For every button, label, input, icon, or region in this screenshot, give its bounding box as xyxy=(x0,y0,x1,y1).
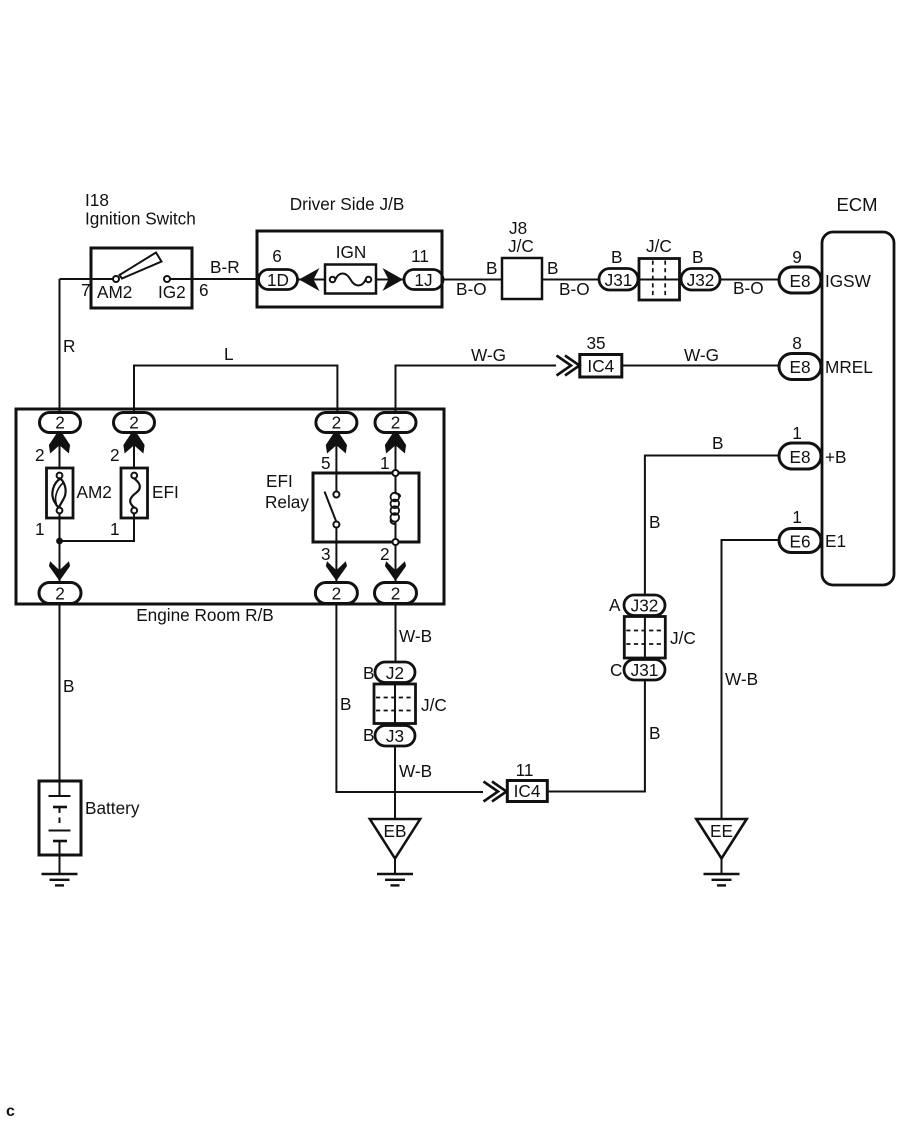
arrow down battery feed xyxy=(49,561,70,581)
wire through J/C xyxy=(394,683,396,726)
J/C internal dashes xyxy=(653,261,665,299)
junction connector J/C box (J31-J32 right) xyxy=(624,617,665,659)
svg-text:B-O: B-O xyxy=(559,279,590,299)
svg-text:IG2: IG2 xyxy=(158,282,186,302)
svg-text:W-G: W-G xyxy=(684,345,719,365)
battery internal plates xyxy=(49,781,71,855)
svg-text:IGN: IGN xyxy=(336,242,367,262)
svg-text:2: 2 xyxy=(55,584,65,604)
ground (battery) xyxy=(42,874,78,885)
connector J3 oval xyxy=(375,726,415,747)
wire relay pin3 from contact to box bottom xyxy=(335,528,337,584)
svg-text:Relay: Relay xyxy=(265,492,309,512)
svg-text:B: B xyxy=(340,694,351,714)
arrow down relay pin3 xyxy=(326,561,347,581)
svg-text:B: B xyxy=(547,258,558,278)
wire EFI fuse down and left to junction xyxy=(60,514,135,542)
svg-text:c: c xyxy=(6,1103,15,1120)
svg-text:J/C: J/C xyxy=(508,236,534,256)
svg-text:2: 2 xyxy=(332,584,342,604)
arrow into 1D (left-pointing) xyxy=(299,268,320,291)
relay coil node top xyxy=(393,470,399,476)
svg-text:35: 35 xyxy=(586,333,605,353)
svg-text:B: B xyxy=(363,663,374,683)
svg-text:E8: E8 xyxy=(789,357,810,377)
wire EFI relay pin1 to W-G line xyxy=(396,366,557,413)
svg-text:5: 5 xyxy=(321,453,331,473)
svg-text:IC4: IC4 xyxy=(587,356,614,376)
wire AM2 fuse down to junction xyxy=(59,514,61,562)
wire relay pin3 down to IC4 11 xyxy=(336,604,483,793)
fuse IGN element xyxy=(330,277,336,283)
wire through J/C xyxy=(644,617,646,659)
connector 1D oval xyxy=(259,270,298,290)
svg-text:1J: 1J xyxy=(414,270,432,290)
svg-text:W-B: W-B xyxy=(399,761,432,781)
connector 2 oval (relay pin1 top) xyxy=(375,413,416,433)
connector J32 oval (right) xyxy=(624,595,665,616)
wire J32 up to E8 +B xyxy=(645,456,779,596)
ignition switch I18 box xyxy=(91,248,192,308)
ignition switch lever xyxy=(120,253,162,279)
svg-text:Driver Side J/B: Driver Side J/B xyxy=(290,194,405,214)
svg-text:MREL: MREL xyxy=(825,357,873,377)
svg-text:EB: EB xyxy=(384,821,407,841)
svg-text:2: 2 xyxy=(110,445,120,465)
svg-text:B: B xyxy=(611,247,622,267)
svg-text:J2: J2 xyxy=(386,663,404,683)
fuse AM2 box xyxy=(47,468,74,518)
svg-text:EE: EE xyxy=(710,821,733,841)
connector E8 pin 8 MREL oval xyxy=(779,354,821,380)
svg-text:B: B xyxy=(486,258,497,278)
svg-text:EFI: EFI xyxy=(266,471,293,491)
svg-text:6: 6 xyxy=(199,280,209,300)
arrow up relay pin5 xyxy=(326,429,347,454)
terminal AM2 contact xyxy=(113,276,119,282)
svg-text:R: R xyxy=(63,336,75,356)
wire AM2 oval to fuse xyxy=(59,433,61,469)
relay switch blade xyxy=(325,492,337,522)
connector 2 oval (relay pin3 bottom) xyxy=(315,583,357,604)
svg-text:1D: 1D xyxy=(267,270,289,290)
connector 2 oval (relay pin5 top) xyxy=(316,413,357,433)
wire relay pin1 oval down xyxy=(395,433,397,474)
svg-text:AM2: AM2 xyxy=(97,282,132,302)
ground (EE) xyxy=(704,874,740,885)
wire 1J to J8 xyxy=(442,279,502,281)
svg-text:J32: J32 xyxy=(687,270,715,290)
svg-text:3: 3 xyxy=(321,544,331,564)
connector J32 oval xyxy=(681,269,720,291)
wire relay pin2 down W-B xyxy=(395,604,397,663)
svg-text:8: 8 xyxy=(792,333,802,353)
junction dot xyxy=(56,538,63,545)
Driver Side J/B box xyxy=(257,231,442,307)
svg-text:J/C: J/C xyxy=(421,695,447,715)
svg-text:E1: E1 xyxy=(825,531,846,551)
connector J31 oval (right) xyxy=(624,660,665,681)
svg-text:IGSW: IGSW xyxy=(825,271,872,291)
junction connector J/C box (J2-J3) xyxy=(374,684,416,724)
connector 2 oval (relay pin2 bottom) xyxy=(375,583,417,604)
svg-text:ECM: ECM xyxy=(836,194,877,215)
wire EB to ground xyxy=(394,859,396,875)
svg-text:L: L xyxy=(224,344,234,364)
relay coil xyxy=(391,493,400,522)
shield chevrons before IC4 11 xyxy=(492,782,507,802)
svg-text:B-O: B-O xyxy=(733,278,764,298)
wire EFI oval to fuse xyxy=(133,433,135,469)
relay switch lower contact xyxy=(333,522,339,528)
svg-text:B-R: B-R xyxy=(210,257,240,277)
svg-text:11: 11 xyxy=(411,246,429,266)
battery box xyxy=(39,781,81,855)
ground (EB) xyxy=(377,874,413,885)
wire 1D to fuse xyxy=(298,279,326,281)
svg-text:J3: J3 xyxy=(386,726,404,746)
svg-text:1: 1 xyxy=(380,453,390,473)
svg-text:2: 2 xyxy=(391,413,401,433)
wire through J/C xyxy=(638,279,681,281)
connector 2 oval (AM2 top) xyxy=(40,413,81,433)
svg-text:2: 2 xyxy=(35,445,45,465)
svg-text:E6: E6 xyxy=(789,532,810,552)
junction connector J8 J/C box xyxy=(502,258,542,299)
svg-text:B: B xyxy=(649,723,660,743)
fuse IGN box xyxy=(325,265,376,294)
wire L from EFI fuse to relay pin5 xyxy=(134,366,337,413)
wire IC4 to E8 MREL xyxy=(622,365,779,367)
label I18 Ignition Switch xyxy=(85,190,196,229)
arrow up EFI xyxy=(123,429,144,454)
arrow into 1J (right-pointing) xyxy=(383,268,404,291)
svg-text:B: B xyxy=(63,676,74,696)
svg-text:B: B xyxy=(363,725,374,745)
terminal IG2 contact xyxy=(164,276,170,282)
wire IC4 to right vertical xyxy=(547,680,645,792)
EFI relay box xyxy=(313,473,419,542)
svg-text:W-B: W-B xyxy=(725,669,758,689)
svg-text:2: 2 xyxy=(55,413,65,433)
wire J3 down to EB xyxy=(394,746,396,819)
svg-text:2: 2 xyxy=(380,544,390,564)
wire J32 to E8 IGSW xyxy=(720,279,779,281)
connector 2 oval (battery bottom) xyxy=(39,583,81,604)
wire battery B xyxy=(59,604,61,782)
svg-text:J32: J32 xyxy=(631,596,659,616)
svg-text:1: 1 xyxy=(110,519,120,539)
wire coil bottom xyxy=(395,521,397,583)
Engine Room R/B box xyxy=(16,409,444,604)
svg-text:E8: E8 xyxy=(789,447,810,467)
wire ignition pin7 to node R xyxy=(91,278,113,280)
wire fuse to 1J xyxy=(376,279,404,281)
svg-text:I18: I18 xyxy=(85,190,109,210)
connector E8 pin 9 IGSW oval xyxy=(779,267,821,293)
shielded junction IC4 box xyxy=(507,781,547,802)
svg-text:2: 2 xyxy=(391,584,401,604)
svg-text:B: B xyxy=(692,247,703,267)
arrow up AM2 xyxy=(49,429,70,454)
svg-text:C: C xyxy=(610,660,622,680)
wire coil top xyxy=(395,476,397,494)
svg-text:B-O: B-O xyxy=(456,279,487,299)
svg-text:9: 9 xyxy=(792,247,802,267)
junction connector J/C box (J31-J32) xyxy=(639,259,680,301)
fuse EFI element xyxy=(131,473,137,479)
svg-text:W-G: W-G xyxy=(471,345,506,365)
svg-text:7: 7 xyxy=(81,280,91,300)
wire relay pin5 oval down xyxy=(335,433,337,492)
svg-text:Ignition Switch: Ignition Switch xyxy=(85,209,196,229)
svg-text:W-B: W-B xyxy=(399,626,432,646)
svg-text:J/C: J/C xyxy=(646,236,672,256)
connector J31 oval xyxy=(599,269,638,291)
svg-text:Engine Room R/B: Engine Room R/B xyxy=(136,605,274,625)
svg-text:AM2: AM2 xyxy=(77,482,112,502)
svg-text:1: 1 xyxy=(792,423,802,443)
svg-text:J31: J31 xyxy=(605,270,633,290)
svg-text:2: 2 xyxy=(129,413,139,433)
wire R vertical down to AM2 fuse connector xyxy=(59,279,61,413)
svg-text:11: 11 xyxy=(516,760,534,780)
wire ignition pin6 to Driver Side J/B xyxy=(170,278,257,280)
svg-text:A: A xyxy=(609,595,621,615)
wire junction down to bottom oval xyxy=(59,541,61,583)
wire battery to ground xyxy=(59,855,61,874)
connector 1J oval xyxy=(404,270,443,290)
connector E6 pin 1 E1 oval xyxy=(779,529,821,553)
ground triangle EB xyxy=(370,819,420,859)
svg-text:2: 2 xyxy=(332,413,342,433)
arrow up relay pin1 xyxy=(385,429,406,454)
relay coil node bottom xyxy=(393,539,399,545)
ECM box xyxy=(822,232,894,585)
wire E6 E1 to EE ground xyxy=(722,540,780,819)
svg-text:B: B xyxy=(649,512,660,532)
connector 2 oval (EFI top) xyxy=(114,413,155,433)
svg-text:J/C: J/C xyxy=(670,628,696,648)
shield chevrons before IC4 35 xyxy=(565,356,580,376)
svg-text:1: 1 xyxy=(35,519,45,539)
connector E8 pin 1 +B oval xyxy=(779,443,821,469)
wire EE to ground xyxy=(721,859,723,875)
J/C internal dashes xyxy=(626,631,663,645)
ground triangle EE xyxy=(696,819,746,859)
EFI relay label xyxy=(265,471,309,512)
connector J2 oval xyxy=(375,662,415,683)
fuse AM2 element xyxy=(57,473,63,479)
svg-text:E8: E8 xyxy=(789,271,810,291)
svg-text:Battery: Battery xyxy=(85,798,140,818)
svg-text:B: B xyxy=(712,433,723,453)
svg-text:1: 1 xyxy=(792,507,802,527)
svg-text:EFI: EFI xyxy=(152,482,179,502)
J/C internal dashes xyxy=(376,698,414,711)
fuse EFI box xyxy=(121,468,148,518)
svg-text:J31: J31 xyxy=(631,660,659,680)
svg-text:+B: +B xyxy=(825,447,847,467)
svg-text:6: 6 xyxy=(272,246,282,266)
wire J8 to J31 xyxy=(542,279,599,281)
relay switch upper contact xyxy=(333,492,339,498)
arrow down relay pin2 xyxy=(385,561,406,581)
svg-text:IC4: IC4 xyxy=(514,781,541,801)
svg-text:J8: J8 xyxy=(509,218,527,238)
shielded junction IC4 box xyxy=(580,355,622,378)
